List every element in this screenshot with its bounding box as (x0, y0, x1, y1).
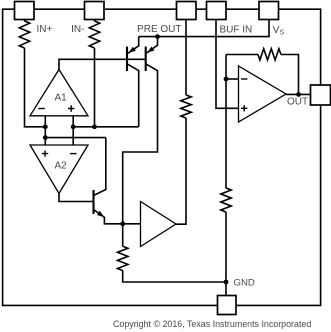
pin GND (218, 296, 237, 315)
transistor Q3 emitter to buffer input (94, 210, 141, 224)
svg-text:A2: A2 (55, 160, 68, 171)
transistor Q2 (PNP) base bar (145, 47, 147, 72)
pin IN+ (15, 2, 35, 20)
output op-amp U3 (239, 66, 287, 122)
junction node A1- line1 (43, 124, 48, 129)
wire BUF IN pin to +input of output amp (216, 20, 239, 109)
wire ground rail (123, 271, 226, 296)
wire A1 inverting input stub (44, 116, 46, 145)
junction node A1+ line1 (71, 124, 76, 129)
svg-text:IN-: IN- (71, 24, 84, 35)
junction node line2 (43, 135, 48, 140)
resistor R-gain (221, 188, 231, 212)
pin IN- (85, 2, 105, 20)
minus sign A1 inverting input (38, 108, 44, 110)
wire resistor to buffer output (176, 118, 186, 224)
transistor Q1 emitter (128, 37, 139, 54)
pin BUF IN (207, 2, 227, 20)
plus sign A2 noninverting input (42, 150, 48, 156)
transistor Q2 emitter (147, 37, 158, 53)
minus sign A2 inverting input (70, 153, 76, 155)
wire U3 output to OUT pin (286, 93, 311, 95)
wire node line2 (A1- / A2+ / Q3 collector) (45, 137, 106, 139)
resistor R-IN- (89, 21, 99, 48)
resistor R bottom-left (118, 246, 128, 270)
transistor Q3 (NPN) base bar (92, 190, 94, 214)
plus sign A1 noninverting input (68, 105, 74, 111)
wire IN- pin to resistor to node (94, 20, 96, 127)
plus sign U3 noninverting input (241, 105, 247, 111)
wire inverting input of U3 (226, 78, 239, 80)
resistor R-feedback (258, 49, 281, 60)
pin PRE OUT (177, 2, 197, 20)
svg-text:GND: GND (234, 278, 255, 289)
svg-text:PRE OUT: PRE OUT (137, 24, 181, 35)
resistor R-PREOUT (181, 95, 191, 118)
pin VS (259, 2, 279, 20)
transistor Q1 collector (128, 64, 139, 127)
wire PRE OUT pin down to resistor (185, 20, 187, 96)
wire IN+ pin to resistor to node (25, 20, 46, 127)
wire feedback node down through gain resistor (225, 55, 227, 283)
transistor Q3 collector to line2 (94, 138, 106, 196)
wire A1 noninverting input stub (72, 116, 74, 145)
pin OUT (311, 85, 331, 105)
transistor Q2 collector to buffer input node (123, 64, 158, 246)
junction node U3 inverting (224, 77, 229, 82)
svg-text:OUT: OUT (287, 97, 308, 108)
junction node buffer input (120, 221, 125, 226)
transistor Q1 (PNP) base bar (126, 47, 128, 72)
junction node emitters/VS (155, 34, 160, 39)
wire feedback top (226, 55, 299, 95)
svg-text:Copyright © 2016, Texas Instru: Copyright © 2016, Texas Instruments Inco… (113, 319, 311, 329)
buffer amp (141, 202, 177, 247)
svg-text:BUF IN: BUF IN (220, 25, 253, 36)
junction node U3 output (296, 92, 301, 97)
junction node IN- line1 (92, 124, 97, 129)
svg-text:A1: A1 (55, 92, 68, 103)
wire A1 output to transistor bases (59, 59, 146, 69)
resistor R-IN+ (19, 21, 29, 48)
minus sign U3 inverting input (241, 78, 247, 80)
wire A2 output to Q3 base (59, 194, 94, 202)
wire VS rail to emitters (139, 20, 269, 37)
op-amp A2 (30, 145, 88, 194)
wire node line1 right segment (A1+ / IN- / Q1 collector) (73, 126, 139, 128)
junction node GND (224, 280, 229, 285)
op-amp A1 (30, 70, 88, 116)
svg-text:IN+: IN+ (37, 24, 53, 35)
